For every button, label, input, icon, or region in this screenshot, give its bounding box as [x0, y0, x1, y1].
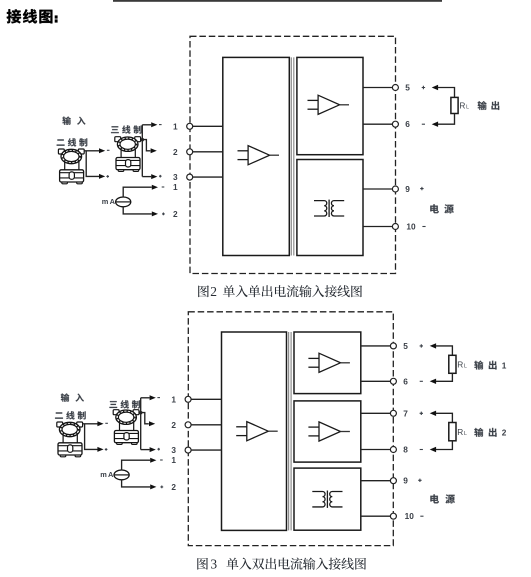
- svg-text:3: 3: [173, 172, 178, 182]
- main input block D2: [222, 332, 287, 530]
- terminal node 6 D2: [390, 378, 396, 384]
- label 电源 D1: [430, 204, 453, 213]
- svg-text:1: 1: [173, 121, 178, 131]
- current source mA D1: [116, 197, 131, 207]
- plus sign two-wire D1: [106, 175, 109, 178]
- op-amp output stage 2 D2: [308, 422, 350, 441]
- wire three-wire bus D2: [140, 398, 142, 450]
- svg-text:5: 5: [403, 341, 408, 351]
- arrow three-wire 1 D2: [150, 395, 156, 400]
- label 输出 2 D2-out2: [474, 428, 506, 438]
- plus sign mA D2: [160, 486, 163, 489]
- wire load top D2-out1: [436, 346, 453, 355]
- arrow into terminal top D2-out1: [430, 343, 436, 348]
- wire load bottom D2-out1: [436, 373, 453, 381]
- wire terminal 3 D1: [190, 176, 223, 178]
- wire load bottom D1: [438, 114, 455, 125]
- output amp block D1: [297, 57, 363, 154]
- wire terminal 10 D2: [361, 515, 394, 517]
- terminal node 6 D1: [392, 121, 398, 127]
- resistor RL D2-out1: [449, 355, 456, 373]
- svg-text:R: R: [459, 101, 465, 111]
- isolation barrier D1: [290, 57, 292, 255]
- arrow into terminal bottom D2-out2: [430, 447, 436, 452]
- svg-text:10: 10: [406, 222, 416, 232]
- table rule top: [113, 0, 442, 2]
- svg-text:2: 2: [171, 482, 176, 492]
- svg-text:9: 9: [405, 184, 410, 194]
- wire two-wire minus D1: [84, 150, 99, 152]
- svg-text:1: 1: [171, 455, 176, 465]
- op-amp output stage D1: [308, 95, 350, 114]
- terminal node 5 D2: [390, 343, 396, 349]
- junction three-wire D2: [139, 411, 142, 414]
- terminal node 3 D2: [185, 447, 191, 453]
- plus sign terminal 7 D2: [420, 412, 423, 415]
- wire terminal 5 D2: [361, 345, 394, 347]
- label 电源 D2: [430, 494, 454, 503]
- arrow mA minus D2: [150, 458, 156, 463]
- dashed enclosure D1: [190, 36, 396, 273]
- svg-text:L: L: [464, 363, 467, 369]
- transformer D1: [314, 200, 344, 217]
- arrow two-wire plus D2: [97, 447, 103, 452]
- wire two-wire plus D1: [86, 151, 99, 176]
- arrow three-wire 2 D1: [151, 148, 157, 153]
- terminal node 10 D2: [390, 513, 396, 519]
- svg-text:R: R: [457, 359, 463, 369]
- arrow mA plus D1: [152, 211, 158, 216]
- svg-text:1: 1: [502, 360, 507, 370]
- label 三线制 (three-wire) D2: [109, 400, 139, 408]
- terminal node 3 D1: [187, 174, 193, 180]
- resistor RL D2-out2: [449, 423, 456, 441]
- minus sign terminal 10 D1: [422, 226, 425, 228]
- wire load top D1: [438, 88, 455, 98]
- wire two-wire minus D2: [83, 423, 98, 425]
- terminal node 1 D2: [185, 396, 191, 402]
- arrow three-wire 2 D2: [149, 421, 155, 426]
- terminal node 10 D1: [392, 224, 398, 230]
- wire terminal 6 D2: [361, 380, 394, 382]
- output amp 1 block D2: [294, 332, 361, 394]
- wire terminal 7 D2: [361, 412, 394, 414]
- arrow into terminal top D1: [432, 85, 438, 90]
- wire three-wire to 2 D1: [142, 140, 150, 151]
- current source mA D2: [114, 470, 129, 480]
- svg-text:2: 2: [173, 209, 178, 219]
- svg-text:8: 8: [403, 445, 408, 455]
- label 二线制 (two-wire) D2: [55, 411, 86, 419]
- wire terminal 8 D2: [361, 449, 394, 451]
- wire load bottom D2-out2: [436, 441, 453, 450]
- plus sign row3 D1: [159, 175, 162, 178]
- caption 图2: [198, 284, 362, 299]
- minus sign mA D1: [162, 186, 165, 188]
- svg-text:2: 2: [210, 284, 217, 299]
- wire terminal 2 D1: [190, 151, 223, 153]
- svg-text:2: 2: [173, 147, 178, 157]
- power block D2: [294, 468, 361, 530]
- terminal node 8 D2: [390, 447, 396, 453]
- minus sign terminal 6 D1: [422, 123, 425, 125]
- wire terminal 5 D1: [363, 87, 395, 89]
- svg-text:L: L: [464, 431, 467, 437]
- wire three-wire to 2 D2: [141, 413, 149, 424]
- isolation barrier D2: [288, 332, 290, 530]
- transmitter two-wire D1: [58, 149, 84, 184]
- page title 接线图:: [7, 9, 58, 23]
- terminal node 7 D2: [390, 410, 396, 416]
- minus sign two-wire D2: [105, 422, 108, 424]
- svg-text:3: 3: [171, 445, 176, 455]
- label 三线制 (three-wire) D1: [111, 125, 142, 133]
- wire terminal 1 D2: [188, 398, 221, 400]
- svg-text:1: 1: [171, 394, 176, 404]
- arrow into terminal bottom D1: [432, 122, 438, 127]
- svg-text:9: 9: [403, 476, 408, 486]
- caption 图3: [197, 557, 366, 572]
- op-amp input stage D1: [238, 146, 280, 165]
- terminal node 2 D2: [185, 422, 191, 428]
- op-amp output stage 1 D2: [308, 353, 350, 372]
- wire terminal 9 D1: [363, 188, 395, 190]
- wire terminal 3 D2: [188, 449, 221, 451]
- label 输入 (input) D2: [61, 393, 84, 401]
- arrow two-wire minus D2: [97, 421, 103, 426]
- transformer D2: [312, 491, 342, 508]
- wire terminal 2 D2: [188, 424, 221, 426]
- op-amp input stage D2: [236, 422, 278, 441]
- terminal node 5 D1: [392, 85, 398, 91]
- svg-text:L: L: [466, 105, 469, 111]
- svg-text:1: 1: [173, 182, 178, 192]
- wire mA plus D1: [123, 207, 152, 214]
- transmitter two-wire D2: [57, 422, 83, 457]
- transmitter three-wire D1: [115, 137, 141, 172]
- plus sign row3 D2: [157, 448, 160, 451]
- svg-text:6: 6: [405, 119, 410, 129]
- wire terminal 9 D2: [361, 480, 394, 482]
- minus sign terminal 6 D2: [420, 380, 423, 382]
- svg-text:5: 5: [405, 83, 410, 93]
- svg-text:7: 7: [403, 408, 408, 418]
- wire terminal 10 D1: [363, 226, 395, 228]
- minus sign mA D2: [160, 459, 163, 461]
- wire mA minus D1: [123, 187, 152, 197]
- arrow into terminal top D2-out2: [430, 411, 436, 416]
- minus sign terminal 8 D2: [420, 449, 423, 451]
- minus sign row1 D1: [159, 124, 162, 126]
- plus sign two-wire D2: [105, 448, 108, 451]
- plus sign mA D1: [162, 213, 165, 216]
- minus sign terminal 10 D2: [420, 515, 423, 517]
- main input block D1: [223, 57, 289, 255]
- transmitter three-wire D2: [113, 410, 139, 445]
- arrow mA minus D1: [152, 185, 158, 190]
- wire mA plus D2: [122, 480, 151, 487]
- wire three-wire to 1 D2: [141, 397, 150, 399]
- terminal node 9 D1: [392, 186, 398, 192]
- wire terminal 6 D1: [363, 123, 395, 125]
- dashed enclosure D2: [188, 312, 393, 546]
- wire terminal 1 D1: [190, 125, 223, 127]
- junction three-wire D1: [141, 138, 144, 141]
- wire load top D2-out2: [436, 413, 453, 422]
- wire three-wire to 1 D1: [142, 124, 151, 126]
- output amp 2 block D2: [294, 401, 361, 462]
- minus sign two-wire D1: [107, 149, 110, 151]
- svg-text:mA: mA: [102, 197, 116, 206]
- arrow mA plus D2: [150, 484, 156, 489]
- arrow three-wire 3 D1: [151, 174, 157, 179]
- plus sign terminal 5 D1: [422, 86, 425, 89]
- plus sign terminal 5 D2: [420, 344, 423, 347]
- label 二线制 (two-wire) D1: [57, 138, 88, 146]
- terminal node 2 D1: [187, 149, 193, 155]
- resistor RL D1: [451, 97, 458, 113]
- arrow three-wire 1 D1: [151, 122, 157, 127]
- arrow two-wire plus D1: [99, 174, 105, 179]
- terminal node 9 D2: [390, 478, 396, 484]
- svg-text:6: 6: [403, 376, 408, 386]
- label 输入 (input) D1: [62, 116, 85, 124]
- label 输出 D1: [478, 101, 500, 110]
- wire three-wire to 3 D2: [141, 449, 150, 451]
- power block D1: [297, 160, 363, 256]
- label 输出 1 D2-out1: [474, 360, 506, 370]
- wire two-wire plus D2: [85, 424, 98, 449]
- svg-text:2: 2: [171, 420, 176, 430]
- wire mA minus D2: [122, 460, 151, 470]
- svg-text:3: 3: [210, 557, 217, 572]
- svg-text:R: R: [457, 427, 463, 437]
- svg-text:mA: mA: [100, 470, 114, 479]
- minus sign row1 D2: [157, 397, 160, 399]
- arrow three-wire 3 D2: [150, 447, 156, 452]
- terminal node 1 D1: [187, 123, 193, 129]
- arrow two-wire minus D1: [99, 148, 105, 153]
- svg-text:10: 10: [405, 511, 415, 521]
- arrow into terminal bottom D2-out1: [430, 379, 436, 384]
- wire three-wire to 3 D1: [142, 176, 151, 178]
- wire three-wire bus D1: [141, 125, 143, 177]
- plus sign terminal 9 D2: [418, 479, 421, 482]
- plus sign terminal 9 D1: [420, 187, 423, 190]
- svg-text:2: 2: [502, 428, 507, 438]
